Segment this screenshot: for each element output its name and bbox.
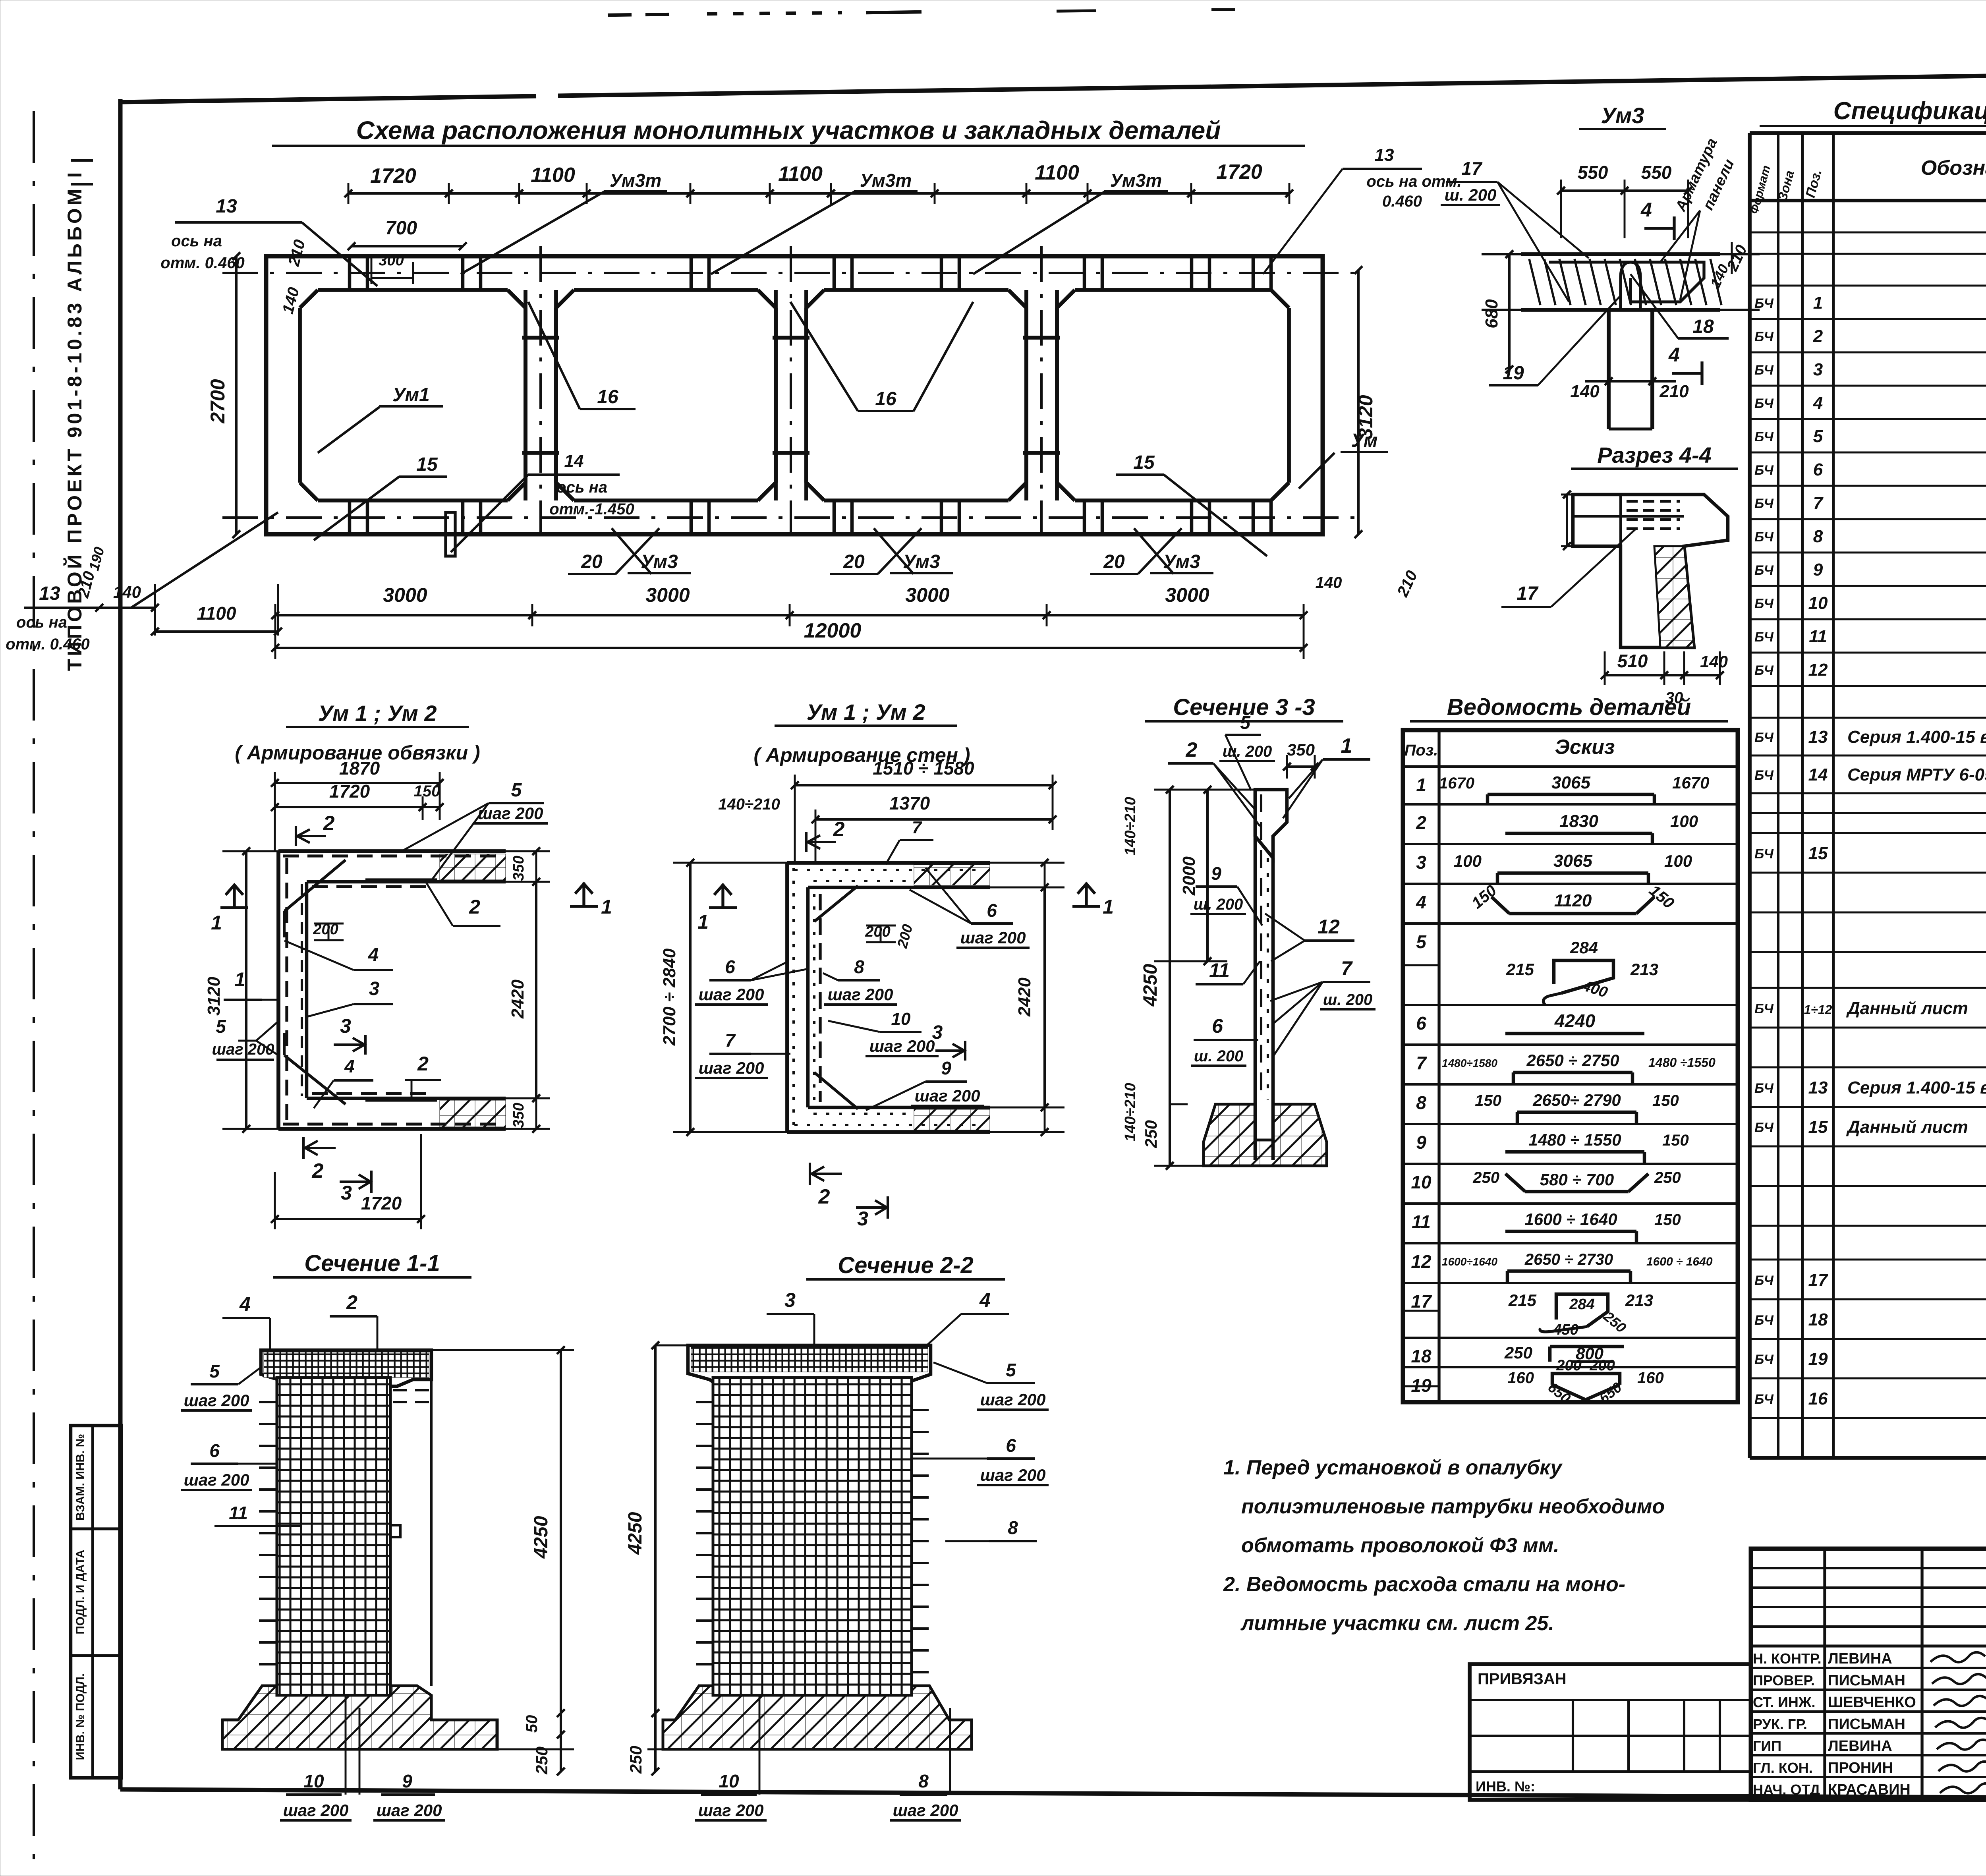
- svg-text:7: 7: [1813, 493, 1824, 513]
- svg-text:БЧ: БЧ: [1754, 529, 1774, 545]
- svg-text:шаг 200: шаг 200: [915, 1086, 980, 1105]
- svg-text:6: 6: [1006, 1435, 1016, 1456]
- svg-text:250: 250: [1472, 1169, 1499, 1186]
- svg-text:4: 4: [368, 945, 379, 966]
- svg-text:шаг 200: шаг 200: [283, 1801, 349, 1820]
- svg-text:9: 9: [941, 1058, 951, 1078]
- svg-text:7: 7: [725, 1030, 736, 1051]
- svg-text:9: 9: [1416, 1132, 1426, 1153]
- svg-text:1. Перед установкой в опалубку: 1. Перед установкой в опалубку: [1223, 1456, 1563, 1479]
- svg-text:4: 4: [1668, 344, 1680, 366]
- svg-text:3: 3: [932, 1022, 943, 1043]
- svg-text:Серия МРТУ 6-05-918-67: Серия МРТУ 6-05-918-67: [1847, 765, 1986, 784]
- svg-text:160: 160: [1507, 1369, 1534, 1387]
- svg-text:БЧ: БЧ: [1754, 596, 1774, 611]
- svg-text:6: 6: [1212, 1015, 1223, 1037]
- svg-text:2: 2: [346, 1291, 357, 1314]
- svg-text:РУК. ГР.: РУК. ГР.: [1753, 1716, 1807, 1732]
- svg-text:1100: 1100: [531, 164, 575, 187]
- svg-text:Ум3т: Ум3т: [610, 170, 662, 191]
- svg-text:3: 3: [369, 978, 380, 999]
- svg-text:Сечение 1-1: Сечение 1-1: [304, 1250, 440, 1276]
- svg-text:1370: 1370: [889, 793, 930, 813]
- svg-text:11: 11: [1209, 959, 1230, 981]
- svg-text:БЧ: БЧ: [1754, 1001, 1774, 1016]
- svg-text:700: 700: [385, 218, 417, 239]
- svg-text:9: 9: [1813, 560, 1823, 580]
- svg-text:19: 19: [1808, 1349, 1828, 1369]
- svg-text:140: 140: [1700, 652, 1728, 671]
- svg-text:Н. КОНТР.: Н. КОНТР.: [1753, 1650, 1822, 1667]
- svg-text:ВЗАМ. ИНВ. №: ВЗАМ. ИНВ. №: [74, 1434, 87, 1521]
- svg-text:СТ. ИНЖ.: СТ. ИНЖ.: [1753, 1694, 1815, 1710]
- svg-text:отм. 0.460: отм. 0.460: [6, 636, 89, 653]
- svg-text:4: 4: [344, 1056, 355, 1076]
- svg-text:350: 350: [510, 856, 527, 881]
- svg-text:1100: 1100: [1035, 161, 1079, 184]
- svg-text:3: 3: [1813, 360, 1823, 379]
- svg-text:БЧ: БЧ: [1754, 1081, 1774, 1096]
- svg-text:2: 2: [1186, 738, 1198, 761]
- svg-text:2: 2: [818, 1185, 830, 1208]
- svg-text:ш. 200: ш. 200: [1194, 1047, 1244, 1065]
- svg-text:ПИСЬМАН: ПИСЬМАН: [1828, 1716, 1905, 1733]
- svg-text:3: 3: [1416, 852, 1426, 873]
- svg-text:100: 100: [1670, 812, 1698, 831]
- svg-text:2. Ведомость расхода стали на: 2. Ведомость расхода стали на моно-: [1223, 1573, 1625, 1596]
- svg-text:3065: 3065: [1551, 773, 1590, 792]
- svg-text:отм.-1.450: отм.-1.450: [549, 500, 634, 518]
- svg-text:шаг 200: шаг 200: [893, 1801, 958, 1820]
- svg-text:580 ÷ 700: 580 ÷ 700: [1540, 1170, 1614, 1189]
- svg-text:13: 13: [1808, 1078, 1828, 1097]
- svg-text:4: 4: [1416, 892, 1426, 912]
- svg-text:ось на: ось на: [171, 232, 222, 250]
- svg-text:БЧ: БЧ: [1754, 563, 1774, 578]
- svg-text:3: 3: [340, 1015, 351, 1037]
- svg-text:3: 3: [784, 1289, 796, 1311]
- svg-text:510: 510: [1617, 651, 1648, 671]
- svg-text:17: 17: [1517, 583, 1539, 604]
- svg-text:9: 9: [402, 1771, 412, 1791]
- svg-text:18: 18: [1411, 1346, 1432, 1366]
- svg-text:ш. 200: ш. 200: [1323, 991, 1373, 1009]
- svg-text:БЧ: БЧ: [1754, 463, 1774, 478]
- svg-text:550: 550: [1578, 162, 1608, 183]
- svg-text:1: 1: [1416, 775, 1426, 795]
- svg-text:1600 ÷ 1640: 1600 ÷ 1640: [1524, 1210, 1617, 1229]
- svg-text:215: 215: [1506, 960, 1534, 979]
- svg-text:4: 4: [1640, 199, 1652, 221]
- svg-text:БЧ: БЧ: [1754, 663, 1774, 678]
- svg-text:2650 ÷ 2730: 2650 ÷ 2730: [1524, 1251, 1613, 1268]
- svg-text:полиэтиленовые патрубки необхо: полиэтиленовые патрубки необходимо: [1241, 1495, 1665, 1518]
- svg-text:150: 150: [1475, 1092, 1501, 1109]
- svg-text:140: 140: [1316, 574, 1342, 591]
- svg-text:2: 2: [323, 812, 335, 835]
- svg-text:1720: 1720: [329, 781, 370, 802]
- svg-text:ИНВ. № ПОДЛ.: ИНВ. № ПОДЛ.: [74, 1673, 87, 1760]
- svg-text:13: 13: [1375, 145, 1394, 165]
- svg-text:250: 250: [1142, 1120, 1160, 1148]
- svg-text:Серия 1.400-15 вып.1: Серия 1.400-15 вып.1: [1847, 727, 1986, 747]
- svg-text:15: 15: [416, 454, 438, 475]
- svg-text:140÷210: 140÷210: [1122, 797, 1139, 856]
- svg-text:4250: 4250: [531, 1516, 552, 1559]
- svg-text:Поз.: Поз.: [1404, 742, 1438, 759]
- svg-text:2: 2: [469, 896, 480, 918]
- svg-text:15: 15: [1133, 452, 1155, 473]
- svg-text:7: 7: [912, 818, 923, 837]
- svg-text:7: 7: [1341, 957, 1353, 980]
- svg-text:1480 ÷1550: 1480 ÷1550: [1648, 1055, 1716, 1070]
- svg-text:Ум3т: Ум3т: [860, 170, 912, 191]
- svg-text:1: 1: [1813, 293, 1823, 313]
- svg-text:1120: 1120: [1554, 891, 1592, 910]
- svg-text:ГЛ. КОН.: ГЛ. КОН.: [1753, 1760, 1813, 1776]
- svg-text:Ум: Ум: [1351, 430, 1378, 451]
- svg-text:150: 150: [1652, 1092, 1679, 1109]
- svg-text:17: 17: [1411, 1291, 1432, 1312]
- svg-text:215: 215: [1508, 1291, 1537, 1310]
- svg-text:18: 18: [1808, 1310, 1828, 1329]
- svg-text:1100: 1100: [197, 603, 236, 624]
- svg-text:БЧ: БЧ: [1754, 768, 1774, 783]
- svg-text:отм. 0.460: отм. 0.460: [160, 254, 244, 272]
- svg-text:2650 ÷ 2750: 2650 ÷ 2750: [1526, 1051, 1619, 1070]
- svg-text:6: 6: [209, 1440, 220, 1461]
- svg-text:8: 8: [1813, 527, 1823, 546]
- svg-text:1480÷1580: 1480÷1580: [1442, 1057, 1497, 1069]
- svg-text:11: 11: [1809, 627, 1827, 646]
- svg-text:11: 11: [1412, 1211, 1431, 1232]
- svg-text:Сечение 2-2: Сечение 2-2: [838, 1252, 973, 1278]
- svg-text:БЧ: БЧ: [1754, 630, 1774, 645]
- svg-text:БЧ: БЧ: [1754, 329, 1774, 344]
- svg-text:2: 2: [417, 1053, 429, 1075]
- svg-text:350: 350: [510, 1103, 527, 1128]
- svg-text:5: 5: [1240, 712, 1251, 733]
- svg-text:ШЕВЧЕНКО: ШЕВЧЕНКО: [1828, 1694, 1916, 1711]
- svg-text:10: 10: [303, 1771, 324, 1791]
- svg-text:Ум3: Ум3: [1601, 103, 1644, 128]
- svg-text:12: 12: [1411, 1251, 1432, 1272]
- svg-text:1: 1: [234, 968, 245, 991]
- svg-text:шаг 200: шаг 200: [980, 1466, 1046, 1484]
- svg-text:ось на: ось на: [556, 479, 607, 496]
- svg-text:1: 1: [1103, 896, 1114, 918]
- svg-text:200: 200: [1589, 1357, 1615, 1374]
- svg-text:1480 ÷ 1550: 1480 ÷ 1550: [1528, 1130, 1621, 1149]
- svg-text:БЧ: БЧ: [1754, 846, 1774, 862]
- svg-text:140÷210: 140÷210: [1122, 1083, 1139, 1142]
- svg-text:БЧ: БЧ: [1754, 1273, 1774, 1288]
- svg-text:Ум3т: Ум3т: [1110, 170, 1162, 191]
- svg-text:10: 10: [1808, 593, 1828, 613]
- svg-text:3: 3: [341, 1182, 352, 1204]
- svg-text:0.460: 0.460: [1382, 193, 1422, 210]
- svg-text:ГИП: ГИП: [1753, 1738, 1781, 1754]
- svg-text:3000: 3000: [1165, 584, 1209, 606]
- svg-text:10: 10: [719, 1771, 739, 1791]
- svg-text:шаг 200: шаг 200: [478, 804, 543, 823]
- svg-text:2420: 2420: [1015, 978, 1034, 1017]
- svg-text:ПИСЬМАН: ПИСЬМАН: [1828, 1672, 1905, 1689]
- svg-text:4250: 4250: [1140, 964, 1161, 1007]
- svg-text:шаг 200: шаг 200: [980, 1390, 1046, 1409]
- svg-text:7: 7: [1416, 1053, 1427, 1073]
- svg-text:шаг 200: шаг 200: [184, 1391, 249, 1410]
- svg-text:3: 3: [857, 1208, 868, 1230]
- svg-text:16: 16: [1808, 1389, 1828, 1408]
- svg-text:БЧ: БЧ: [1754, 296, 1774, 311]
- svg-text:100: 100: [1454, 852, 1482, 870]
- svg-text:шаг 200: шаг 200: [699, 1059, 764, 1077]
- svg-text:2700: 2700: [207, 379, 229, 423]
- svg-text:2420: 2420: [508, 980, 527, 1019]
- svg-text:150: 150: [1662, 1132, 1689, 1149]
- svg-text:НАЧ. ОТД: НАЧ. ОТД: [1753, 1781, 1820, 1798]
- svg-text:5: 5: [1006, 1360, 1016, 1380]
- svg-text:13: 13: [39, 583, 60, 604]
- svg-text:БЧ: БЧ: [1754, 363, 1774, 378]
- svg-text:14: 14: [1808, 765, 1828, 784]
- svg-text:140÷210: 140÷210: [718, 796, 780, 813]
- svg-text:250: 250: [626, 1746, 645, 1774]
- svg-text:ПРОНИН: ПРОНИН: [1828, 1760, 1893, 1776]
- svg-text:2: 2: [312, 1159, 324, 1182]
- svg-text:13: 13: [1808, 727, 1828, 747]
- svg-text:13: 13: [216, 196, 237, 217]
- svg-text:8: 8: [1008, 1517, 1018, 1538]
- svg-text:17: 17: [1808, 1270, 1829, 1290]
- svg-text:200: 200: [1556, 1357, 1581, 1374]
- svg-text:3000: 3000: [383, 584, 427, 606]
- svg-text:50: 50: [523, 1715, 541, 1733]
- svg-text:4250: 4250: [625, 1512, 646, 1555]
- svg-text:15: 15: [1808, 1117, 1828, 1137]
- svg-text:1: 1: [1341, 734, 1352, 757]
- svg-text:ПРОВЕР.: ПРОВЕР.: [1753, 1672, 1815, 1689]
- svg-text:БЧ: БЧ: [1754, 396, 1774, 411]
- svg-text:5: 5: [209, 1361, 220, 1381]
- svg-text:1670: 1670: [1439, 775, 1474, 792]
- svg-text:3000: 3000: [905, 584, 949, 606]
- svg-text:6: 6: [725, 956, 735, 977]
- svg-text:1: 1: [601, 896, 612, 918]
- svg-text:140: 140: [1570, 382, 1600, 401]
- svg-text:150: 150: [414, 782, 440, 800]
- svg-text:1670: 1670: [1672, 773, 1709, 792]
- svg-text:Данный лист: Данный лист: [1846, 999, 1968, 1018]
- svg-text:300: 300: [379, 252, 404, 269]
- svg-text:КРАСАВИН: КРАСАВИН: [1828, 1781, 1911, 1798]
- svg-text:Спецификация монолитных участк: Спецификация монолитных участков Ум-1 ÷ …: [1833, 97, 1986, 125]
- svg-text:ш. 200: ш. 200: [1194, 896, 1243, 913]
- svg-text:16: 16: [875, 388, 896, 410]
- svg-text:ИНВ. №:: ИНВ. №:: [1476, 1778, 1535, 1795]
- svg-text:Ум1: Ум1: [392, 384, 430, 406]
- svg-text:10: 10: [1411, 1172, 1432, 1192]
- svg-text:350: 350: [1287, 740, 1315, 759]
- svg-text:20: 20: [843, 551, 865, 572]
- svg-text:1720: 1720: [1216, 160, 1262, 184]
- svg-text:шаг 200: шаг 200: [377, 1801, 442, 1820]
- svg-text:ось на: ось на: [16, 614, 67, 631]
- svg-text:5: 5: [1813, 427, 1823, 446]
- svg-text:БЧ: БЧ: [1754, 1352, 1774, 1367]
- svg-text:250: 250: [1654, 1169, 1681, 1186]
- svg-text:5: 5: [216, 1016, 226, 1037]
- svg-text:2700 ÷ 2840: 2700 ÷ 2840: [660, 948, 679, 1046]
- svg-text:4240: 4240: [1554, 1010, 1596, 1031]
- svg-text:210: 210: [1659, 382, 1689, 401]
- svg-text:1100: 1100: [778, 162, 823, 185]
- svg-text:БЧ: БЧ: [1754, 496, 1774, 511]
- svg-text:160: 160: [1637, 1369, 1664, 1387]
- svg-text:4: 4: [1813, 393, 1823, 413]
- svg-text:1÷12: 1÷12: [1804, 1003, 1832, 1017]
- svg-text:Ведомость деталей: Ведомость деталей: [1447, 694, 1691, 720]
- svg-text:8: 8: [918, 1771, 929, 1791]
- svg-text:2000: 2000: [1179, 856, 1199, 896]
- svg-text:ш. 200: ш. 200: [1445, 185, 1497, 204]
- svg-text:5: 5: [511, 780, 522, 801]
- svg-text:шаг 200: шаг 200: [699, 985, 764, 1004]
- svg-text:10: 10: [891, 1009, 911, 1029]
- svg-text:250: 250: [532, 1747, 551, 1775]
- svg-text:6: 6: [1416, 1013, 1426, 1034]
- svg-text:9: 9: [1211, 863, 1221, 884]
- svg-text:3000: 3000: [645, 584, 690, 606]
- svg-text:20: 20: [1103, 551, 1125, 572]
- svg-text:18: 18: [1692, 316, 1714, 337]
- svg-text:140: 140: [113, 583, 141, 601]
- svg-text:3120: 3120: [204, 977, 224, 1016]
- svg-text:1: 1: [211, 912, 222, 934]
- svg-text:680: 680: [1482, 299, 1501, 328]
- svg-text:6: 6: [987, 900, 997, 921]
- svg-text:Ум 1 ; Ум 2: Ум 1 ; Ум 2: [806, 699, 925, 725]
- svg-text:550: 550: [1641, 162, 1672, 183]
- svg-text:БЧ: БЧ: [1754, 1120, 1774, 1135]
- svg-text:2650÷ 2790: 2650÷ 2790: [1532, 1091, 1621, 1109]
- svg-text:обмотать проволокой Ф3 мм.: обмотать проволокой Ф3 мм.: [1241, 1534, 1559, 1557]
- svg-text:шаг 200: шаг 200: [184, 1470, 249, 1489]
- svg-text:Разрез 4-4: Разрез 4-4: [1597, 442, 1712, 468]
- svg-text:14: 14: [564, 451, 584, 471]
- svg-text:шаг 200: шаг 200: [869, 1037, 935, 1055]
- svg-text:2: 2: [1416, 812, 1426, 833]
- svg-text:литные участки см. лист 25.: литные участки см. лист 25.: [1240, 1612, 1554, 1635]
- svg-text:11: 11: [229, 1503, 248, 1523]
- svg-text:12000: 12000: [804, 619, 862, 642]
- svg-text:213: 213: [1630, 960, 1658, 979]
- svg-text:ЛЕВИНА: ЛЕВИНА: [1828, 1738, 1892, 1754]
- svg-text:БЧ: БЧ: [1754, 730, 1774, 745]
- svg-text:450: 450: [1553, 1322, 1578, 1338]
- svg-text:4: 4: [979, 1289, 991, 1311]
- svg-text:17: 17: [1461, 158, 1483, 179]
- svg-text:шаг 200: шаг 200: [828, 985, 893, 1004]
- svg-text:Эскиз: Эскиз: [1555, 736, 1615, 759]
- svg-text:БЧ: БЧ: [1754, 1313, 1774, 1328]
- svg-text:6: 6: [1813, 460, 1823, 479]
- svg-text:12: 12: [1318, 916, 1340, 938]
- svg-text:ЛЕВИНА: ЛЕВИНА: [1828, 1650, 1892, 1667]
- svg-text:1600 ÷ 1640: 1600 ÷ 1640: [1646, 1255, 1713, 1268]
- svg-text:100: 100: [1664, 852, 1692, 870]
- svg-text:284: 284: [1569, 1296, 1594, 1313]
- svg-text:213: 213: [1625, 1291, 1653, 1310]
- svg-text:ПРИВЯЗАН: ПРИВЯЗАН: [1478, 1670, 1567, 1688]
- svg-text:2: 2: [1813, 327, 1823, 346]
- svg-text:15: 15: [1808, 844, 1828, 863]
- svg-text:3065: 3065: [1553, 851, 1592, 871]
- svg-text:8: 8: [1416, 1092, 1426, 1113]
- svg-text:Серия 1.400-15 вып.1: Серия 1.400-15 вып.1: [1847, 1078, 1986, 1097]
- svg-text:4: 4: [239, 1293, 251, 1315]
- svg-text:150: 150: [1654, 1211, 1681, 1229]
- svg-text:1830: 1830: [1559, 811, 1598, 831]
- svg-text:шаг 200: шаг 200: [698, 1801, 764, 1820]
- svg-text:284: 284: [1570, 938, 1598, 957]
- svg-text:20: 20: [581, 551, 603, 572]
- svg-text:1600÷1640: 1600÷1640: [1442, 1256, 1497, 1268]
- svg-text:БЧ: БЧ: [1754, 1392, 1774, 1407]
- svg-text:1: 1: [697, 911, 709, 933]
- svg-text:1870: 1870: [339, 758, 380, 779]
- svg-text:8: 8: [854, 956, 864, 977]
- svg-text:1720: 1720: [370, 164, 416, 187]
- svg-text:ПОДЛ. И ДАТА: ПОДЛ. И ДАТА: [74, 1549, 87, 1634]
- svg-text:250: 250: [1504, 1343, 1532, 1362]
- svg-text:5: 5: [1416, 931, 1427, 952]
- svg-text:шаг 200: шаг 200: [960, 928, 1026, 947]
- svg-text:2: 2: [833, 818, 845, 841]
- svg-text:1720: 1720: [361, 1193, 402, 1213]
- svg-text:1510 ÷ 1580: 1510 ÷ 1580: [873, 758, 974, 779]
- svg-text:БЧ: БЧ: [1754, 429, 1774, 444]
- svg-text:16: 16: [597, 386, 618, 408]
- svg-text:шаг 200: шаг 200: [212, 1041, 274, 1058]
- svg-text:12: 12: [1808, 660, 1828, 680]
- svg-text:Обозначение: Обозначение: [1921, 156, 1986, 180]
- svg-text:Ум 1 ; Ум 2: Ум 1 ; Ум 2: [318, 701, 437, 726]
- svg-text:Схема расположения монолитных: Схема расположения монолитных участков и…: [356, 116, 1221, 145]
- svg-text:Данный лист: Данный лист: [1846, 1117, 1968, 1137]
